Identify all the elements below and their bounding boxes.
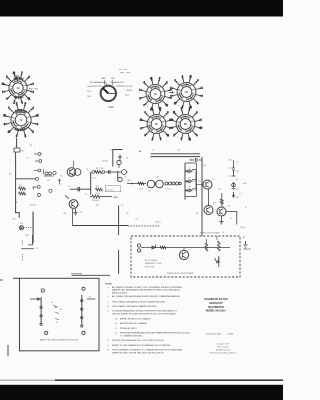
wire: vertical x=118.6 lower [118,250,120,274]
svg-text:1: 1 [152,108,153,110]
wire: top-left corner bracket [113,150,123,167]
svg-text:1: 1 [10,160,11,162]
terminal lug row 1 [34,153,38,155]
rotary switch SW2 wafer A rear [170,76,202,109]
wire: Q6-Q7 link [208,189,210,206]
terminal circle low [38,194,41,197]
jack J1 component chain [232,160,236,197]
svg-text:REFER TO THE CHASSIS PHOTOGRAP: REFER TO THE CHASSIS PHOTOGRAPHS FOR LOC… [112,344,171,347]
svg-text:11: 11 [173,112,175,114]
svg-text:8: 8 [196,112,197,114]
svg-text:C22: C22 [115,197,118,199]
svg-text:3: 3 [167,112,168,114]
svg-text:RESISTANCE MEASURED WITH AN OH: RESISTANCE MEASURED WITH AN OHMMETER FRO… [120,332,190,335]
chassis bar (thick) [32,212,34,244]
svg-text:7: 7 [42,171,43,173]
svg-text:Q2: Q2 [126,157,128,159]
svg-text:AF: AF [154,92,158,96]
resistor R8 [19,192,26,195]
svg-text:2: 2 [140,98,141,100]
wire: dashed continuation y=226 [128,225,160,227]
svg-text:ALL CAPACITOR VALUES ARE IN MF: ALL CAPACITOR VALUES ARE IN MFD UNLESS O… [112,295,181,298]
svg-text:D3: D3 [189,187,191,189]
wire: riser x=43.5 [43,169,45,174]
svg-text:4: 4 [33,108,34,110]
transistor Q6 [203,180,212,189]
svg-text:TO CHASSIS GROUND.: TO CHASSIS GROUND. [120,335,143,338]
misc left labels [10,145,32,204]
knob scale marks upper right [119,70,130,73]
transistor Q1a second circle [74,169,81,176]
svg-text:4: 4 [141,128,142,130]
schematic title block [204,298,228,312]
ps: transistor Q10 [179,250,188,259]
svg-text:9: 9 [25,103,26,105]
ground below Q9 [73,209,77,216]
svg-text:7: 7 [8,108,9,110]
svg-text:C14: C14 [229,168,232,170]
left edge mark [7,345,9,356]
svg-text:8b: 8b [60,309,62,311]
connector pins [186,170,188,172]
wire: Q8 collector bend [226,212,237,225]
arrow on center wire [131,183,133,185]
svg-text:ALL RESISTORS ARE 1/2 WATT, 10: ALL RESISTORS ARE 1/2 WATT, 10% TOLERANC… [112,286,182,289]
svg-text:4: 4 [144,82,145,84]
svg-text:1R: 1R [16,86,19,90]
svg-text:11: 11 [150,78,152,80]
svg-text:F1: F1 [236,179,238,181]
svg-text:1: 1 [14,103,15,105]
svg-text:C4: C4 [68,186,70,188]
arrow below right of box [215,258,220,263]
arrow between wafers [169,92,174,94]
wire: vertical x=118.6 upper [118,206,120,236]
wire: left rail x=15.6 [15,152,17,212]
wire: line above box to right [72,274,110,276]
svg-text:HEATHKIT®: HEATHKIT® [209,302,223,305]
node dot on bus [139,151,140,152]
rotary switch SW2 wafer B rear [169,108,202,141]
wire: horizontal y=225.5 [73,225,129,227]
svg-text:AR: AR [185,90,189,94]
battery B1 right of box [244,241,251,249]
svg-text:D2: D2 [189,177,191,179]
power supply dashed box [131,236,240,277]
wire: left riser x=90.7 [90,172,92,195]
thin bottom rule [0,379,55,381]
svg-text:SCHEMATIC OF THE: SCHEMATIC OF THE [204,298,228,301]
svg-text:PROBE AT ZERO.: PROBE AT ZERO. [120,327,137,330]
svg-text:4: 4 [169,120,170,122]
svg-text:DCV: DCV [87,91,92,93]
svg-text:8: 8 [25,136,26,138]
svg-text:MEASURED TO GND: MEASURED TO GND [145,262,162,265]
wafer 2 contact stack bottom [15,128,26,130]
svg-text:7: 7 [22,73,23,75]
svg-text:12: 12 [4,115,6,117]
svg-text:12: 12 [167,135,169,137]
bottom scan bar [0,385,283,400]
svg-text:4: 4 [33,92,34,94]
svg-text:THIS SYMBOL INDICATES CHASSIS: THIS SYMBOL INDICATES CHASSIS GROUND. [112,305,157,308]
function switch knob SW2 [100,85,117,102]
svg-text:R3: R3 [96,186,98,188]
box interior: middle arrows [53,305,59,320]
svg-text:C12: C12 [135,219,138,221]
ps: resistor [160,246,166,248]
svg-text:8: 8 [171,89,172,91]
svg-text:9: 9 [33,84,34,86]
svg-text:5: 5 [4,124,5,126]
svg-text:2: 2 [174,135,175,137]
svg-text:Q4: Q4 [148,191,151,193]
knob leader lines [94,80,126,86]
svg-text:METER CIRCUIT BOARD: METER CIRCUIT BOARD [200,231,220,234]
transistor Q7 [204,206,213,215]
svg-text:.05: .05 [152,150,154,152]
capacitor C4 [78,187,80,191]
diode D3 rung [185,189,196,192]
svg-text:R18: R18 [218,189,221,191]
svg-text:D1: D1 [189,167,191,169]
wire: double bus line [151,154,201,157]
svg-text:J2: J2 [27,158,29,160]
svg-text:2: 2 [42,154,43,156]
svg-text:SWITCH SW2 SHOWN IN FULL CCW (: SWITCH SW2 SHOWN IN FULL CCW (OFF) POSIT… [112,340,164,342]
svg-text:4: 4 [182,76,183,78]
svg-text:5: 5 [196,135,197,137]
wire: lamp to chassis dashed [24,227,32,229]
svg-text:1 2 3 4 5: 1 2 3 4 5 [165,189,171,191]
stub above wafer 1 [14,76,19,80]
svg-text:R20: R20 [9,174,12,176]
wire: Q8 base top [221,193,223,207]
svg-text:M1: M1 [236,197,239,199]
svg-text:R9: R9 [125,176,127,178]
wire: stub left of box [13,277,20,279]
svg-text:VOLTAGES MEASURED WITH A VTVM: VOLTAGES MEASURED WITH A VTVM FROM POINT… [112,310,177,313]
capacitor C1 [118,155,122,162]
contact row (relay contacts) [165,182,181,185]
terminal lug row 2 [35,160,39,162]
wire: center horizontal y=183.5 [127,183,146,185]
svg-text:OHMS: OHMS [126,90,133,92]
svg-text:DC MA: DC MA [126,85,133,88]
svg-text:2: 2 [29,77,30,79]
svg-text:B: B [178,106,179,108]
svg-text:.005: .005 [79,212,82,214]
svg-text:8: 8 [7,99,8,101]
svg-text:10: 10 [166,105,168,107]
svg-text:BATTERY AT FULL CHARGE.: BATTERY AT FULL CHARGE. [120,322,148,325]
svg-text:ACV: ACV [120,81,125,84]
wire: rung y=178.5 [16,178,35,180]
transistor Q3 small [118,177,122,181]
ps: input terminals [137,244,140,247]
wire: block to Q6 [197,184,204,186]
svg-text:1: 1 [33,132,34,134]
lead into Q9 [65,195,69,199]
note tick at left edge [0,279,3,281]
diode D2 rung [185,180,196,183]
svg-text:Part of 595-1638: Part of 595-1638 [206,332,222,335]
resistor R5 [138,182,144,185]
svg-text:6: 6 [145,112,146,114]
wafer 1 contact stack top [14,78,24,80]
svg-text:MEG=1,000,000.: MEG=1,000,000. [112,292,128,294]
ps: wire Q10 base up [183,248,185,251]
svg-text:Q9: Q9 [66,197,69,199]
svg-text:9: 9 [145,135,146,137]
capacitor C3 [109,170,111,174]
label p4 row2 value box [105,186,121,192]
box interior: right vertical with taps [81,295,83,326]
box interior: bottom-right terminal [82,331,85,334]
svg-text:3: 3 [2,92,3,94]
rotary switch SW1 wafer 2 (front) [4,103,39,138]
svg-text:82: 82 [30,145,32,147]
small switch circle [49,189,52,192]
svg-text:B1: B1 [243,237,245,239]
box interior: left vertical with taps [40,297,42,324]
svg-text:6: 6 [181,108,182,110]
svg-text:56733: 56733 [228,333,234,335]
svg-text:50-0-50: 50-0-50 [240,227,246,229]
wire: left capacitor lead [70,188,91,190]
svg-text:12: 12 [189,139,191,141]
svg-text:J1: J1 [236,189,238,191]
svg-text:3: 3 [197,103,198,105]
svg-text:9: 9 [139,90,140,92]
svg-text:7: 7 [171,96,172,98]
ps: vertical resistor R10 [205,243,208,251]
resistor R1 1.5M row1 [95,171,102,174]
svg-text:12: 12 [174,103,176,105]
wire: ladder vertical x=185 [184,163,186,200]
pot R2 circle [122,170,127,175]
wire: vertical x=72.5 from Q9 row [72,209,74,226]
svg-text:3: 3 [201,119,202,121]
capacitor C2 at bus right end [190,158,202,162]
wire: ladder right vertical x=196 [195,171,197,190]
svg-text:CIRCUIT BOARD GROUND WITH SWIT: CIRCUIT BOARD GROUND WITH SWITCH IN 1.5 … [112,313,176,316]
connector block outline [185,163,197,197]
svg-text:NOTE:: NOTE: [106,283,113,285]
rotary switch SW2 wafer A front [139,78,171,111]
svg-text:Q5: Q5 [157,177,159,179]
svg-text:1F: 1F [19,118,22,122]
svg-text:Q3: Q3 [127,181,129,183]
knob position labels [87,77,133,98]
top scan bar [0,0,283,17]
box interior: terminal top left [41,289,44,292]
svg-text:11: 11 [140,120,142,122]
svg-text:1: 1 [166,82,167,84]
svg-text:1: 1 [202,87,203,89]
rotary switch SW2 wafer B front [140,108,173,141]
svg-text:10: 10 [200,128,202,130]
corner bracket with terminal [33,187,37,189]
component cluster (pot R9) [44,171,56,176]
svg-text:6: 6 [22,103,23,105]
svg-text:R7: R7 [19,185,21,187]
svg-text:6: 6 [197,80,198,82]
svg-text:R14: R14 [198,181,201,183]
svg-text:METER SET AT 25 VDC RANGE.: METER SET AT 25 VDC RANGE. [120,317,151,320]
svg-text:MULTIMETER: MULTIMETER [208,306,224,309]
ps: stubs above box [206,236,217,243]
svg-text:5: 5 [182,107,183,109]
svg-text:THIS SCHEMATIC IS SUBJECT TO C: THIS SCHEMATIC IS SUBJECT TO CHANGE WITH… [112,349,183,352]
transistor Q4 [147,180,155,188]
transistor Q5 [156,180,164,188]
wafer 2 contact stack top [16,110,27,112]
wire into pot [118,171,128,173]
svg-text:BF: BF [155,122,159,126]
svg-text:5: 5 [6,77,7,79]
svg-text:BATT: BATT [102,77,108,80]
svg-text:12: 12 [13,73,15,75]
svg-text:+ 500: + 500 [242,183,247,185]
svg-text:2: 2 [152,139,153,141]
svg-text:MODEL IM-1202+: MODEL IM-1202+ [206,310,227,313]
svg-text:10: 10 [8,132,10,134]
wire: right vertical from bus to dashed box [201,157,203,236]
svg-text:DIFFER SLIGHTLY FROM THE CIRCU: DIFFER SLIGHTLY FROM THE CIRCUITS IN YOU… [112,353,165,355]
svg-text:R1 1.5M: R1 1.5M [96,168,104,170]
wire row1 to node [105,171,118,173]
node + riser x=59.4 [58,179,61,185]
box interior: bottom-left terminal [45,331,48,334]
svg-text:3: 3 [16,136,17,138]
svg-text:5: 5 [34,149,35,151]
wire: Q8 emitter down + ground [219,216,223,224]
wire: dotted vertical x=22.4 [21,241,23,261]
ps: vertical resistor R11 [218,241,221,251]
switch detail box (solid) [20,278,100,351]
wafer 1 contact stack bottom [15,96,24,97]
svg-text:7: 7 [144,105,145,107]
svg-text:SW2: SW2 [108,106,114,109]
dash above box [71,273,82,275]
svg-text:BR: BR [184,122,188,126]
svg-text:R24: R24 [96,205,99,207]
svg-text:10: 10 [2,84,4,86]
svg-text:11: 11 [190,76,192,78]
svg-text:C5: C5 [78,205,80,207]
svg-text:PL1: PL1 [20,223,23,225]
svg-text:8c: 8c [56,322,58,324]
pilot lamp PL1 [19,226,23,230]
svg-text:BATT TEST: BATT TEST [29,88,39,91]
box interior: right arrow [87,298,95,300]
rotary switch SW1 wafer 1 (rear) [2,73,34,105]
transistor Q1 [67,168,76,177]
svg-text:6: 6 [37,124,38,126]
svg-text:9: 9 [175,80,176,82]
svg-text:1.2: 1.2 [239,194,241,196]
terminal lug row 3 [34,170,38,172]
wire: left rail x=16 top [16,138,18,148]
svg-text:ALL VOLTAGES: ALL VOLTAGES [145,259,158,262]
svg-text:MARKED. ALL RESISTANCE VALUES: MARKED. ALL RESISTANCE VALUES ARE IN OHM… [112,289,181,292]
wire: riser x=32.5 above chassis [28,235,33,245]
svg-text:R22 100: R22 100 [30,205,36,207]
terminal block TB1 [14,148,20,152]
svg-text:1: 1 [189,108,190,110]
resistor R7 [19,187,26,190]
box interior: arrow in [30,298,40,300]
svg-text:C7: C7 [190,159,192,161]
wire: gray stub y=248.6 [21,248,34,250]
svg-text:3: 3 [171,98,172,100]
svg-text:POWER SUPPLY CIRCUIT BOARD: POWER SUPPLY CIRCUIT BOARD [166,272,194,275]
svg-text:11: 11 [37,115,39,117]
svg-text:F1: F1 [36,248,38,250]
resistor R3 1.25 row2 [96,188,103,191]
svg-text:9: 9 [170,128,171,130]
svg-text:R30: R30 [229,160,232,162]
svg-text:2: 2 [170,88,171,90]
svg-text:11: 11 [28,99,30,101]
transistor Q9 [69,200,78,209]
svg-text:OHMS: OHMS [87,86,94,88]
svg-text:R15: R15 [213,203,216,205]
copyright block [210,343,237,355]
resistor R6 between Q6 Q7 [221,199,223,204]
resistor R4 row3 [90,196,92,198]
svg-text:C2 .05: C2 .05 [92,178,97,180]
svg-text:7: 7 [181,139,182,141]
wire: left corner bracket [15,213,19,218]
svg-text:8: 8 [160,108,161,110]
svg-text:C9: C9 [230,218,232,220]
svg-text:C1 .1: C1 .1 [110,150,114,152]
svg-text:R10 330: R10 330 [102,161,108,163]
transistor Q2 small [117,160,121,164]
svg-text:8: 8 [202,96,203,98]
svg-text:6: 6 [159,78,160,80]
svg-text:WITH VTVM: WITH VTVM [145,266,155,268]
svg-text:81: 81 [22,151,24,153]
ps: diode [152,245,156,250]
wire: node riser x=117.8 [117,171,119,181]
svg-text:p 4 +5C: p 4 +5C [106,189,114,191]
ps: zener [217,256,220,267]
box interior: right terminal top [82,287,85,290]
notes list [108,286,190,355]
diode D1 rung [185,170,196,173]
wire: Q1 top lead [73,161,75,168]
svg-text:+1.2: +1.2 [84,194,87,196]
svg-text:R4 2200: R4 2200 [92,200,99,202]
wire: stub between left wafers [16,103,18,107]
ps: text lines [145,259,162,268]
svg-text:1500: 1500 [63,213,67,215]
svg-text:8a: 8a [51,302,53,304]
svg-text:7: 7 [160,139,161,141]
svg-text:+5: +5 [121,205,123,207]
svg-text:THIS SYMBOL INDICATES A CIRCUI: THIS SYMBOL INDICATES A CIRCUIT BOARD GR… [112,300,166,303]
labels for jack chain [236,162,239,199]
svg-text:1N2071: 1N2071 [155,222,161,224]
transistor Q8 [217,207,226,216]
ps: horizontal wire [141,247,230,249]
svg-text:680: 680 [196,213,199,215]
wire row3 [100,196,112,198]
